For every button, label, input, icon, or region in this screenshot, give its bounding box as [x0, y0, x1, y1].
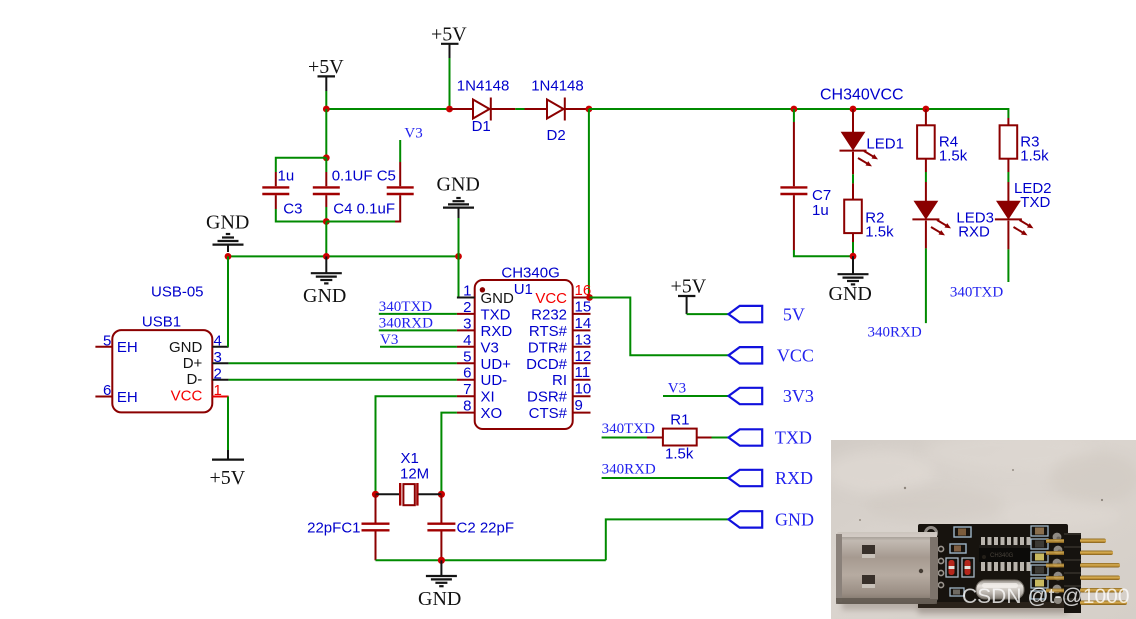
- red diodes: [946, 558, 958, 577]
- wire 340TXD to R1: [602, 437, 647, 439]
- svg-text:USB1: USB1: [142, 314, 181, 331]
- svg-text:V3: V3: [481, 339, 499, 356]
- junction GND rail mid: [323, 253, 330, 260]
- U1 pin 2 stub: [457, 313, 475, 315]
- U1 pin-1 marker dot: [480, 287, 485, 292]
- svg-text:7: 7: [463, 381, 471, 398]
- resistor R1 1.5k: [647, 429, 712, 446]
- svg-text:EH: EH: [117, 389, 138, 406]
- svg-text:6: 6: [463, 365, 471, 382]
- smd caps top-left: [954, 527, 971, 537]
- svg-text:1u: 1u: [278, 168, 295, 185]
- diode D2 1N4148: [525, 98, 589, 121]
- svg-text:V3: V3: [668, 381, 686, 397]
- svg-text:GND: GND: [829, 283, 872, 305]
- svg-text:13: 13: [575, 331, 592, 348]
- USB1 pin 5 stub: [95, 346, 112, 348]
- wire 340RXD to RXD flag: [602, 477, 729, 479]
- svg-text:GND: GND: [418, 588, 461, 610]
- svg-text:UD+: UD+: [481, 356, 512, 373]
- header blocks: [1064, 533, 1081, 613]
- LED LED2: [995, 202, 1034, 236]
- crystal: [976, 580, 1024, 599]
- svg-text:14: 14: [575, 315, 592, 332]
- svg-text:DTR#: DTR#: [528, 339, 568, 356]
- svg-text:1N4148: 1N4148: [457, 77, 510, 94]
- IC pins bottom: [981, 562, 1031, 571]
- U1 pin 3 stub: [457, 329, 475, 331]
- port flag VCC: [729, 347, 763, 363]
- svg-text:D+: D+: [183, 355, 203, 372]
- svg-text:GND: GND: [303, 285, 346, 307]
- svg-text:VCC: VCC: [171, 388, 203, 405]
- junction C4 bottom rail: [323, 218, 330, 225]
- U1 pin 14 stub: [573, 329, 591, 331]
- svg-text:1N4148: 1N4148: [531, 77, 584, 94]
- U1 pin 13 stub: [573, 346, 591, 348]
- wire GND rail down to U1 pin1: [458, 256, 460, 297]
- svg-text:EH: EH: [117, 339, 138, 356]
- wire elevated GND down to rail: [458, 218, 460, 256]
- svg-text:RI: RI: [552, 372, 567, 389]
- wire D+ to U1 UD+: [229, 362, 457, 364]
- solder blobs: [1053, 533, 1063, 604]
- wire D- to U1 UD-: [229, 379, 457, 381]
- IC body: [979, 545, 1031, 562]
- PCB mount rings: [926, 528, 937, 539]
- svg-text:RXD: RXD: [958, 224, 990, 241]
- capacitor C2 22pF: [427, 494, 455, 560]
- svg-text:CSDN @t-@1000: CSDN @t-@1000: [962, 585, 1130, 608]
- U1 pin 12 stub: [573, 362, 591, 364]
- wire top rail segment A: [326, 108, 449, 110]
- U1 pin 1 stub: [457, 297, 475, 299]
- LED LED1: [840, 109, 879, 166]
- svg-text:6: 6: [103, 382, 111, 399]
- svg-text:340RXD: 340RXD: [868, 325, 922, 341]
- svg-text:3: 3: [463, 315, 471, 332]
- wire V3 to U1 pin4: [380, 346, 457, 348]
- wire +5V stem top: [449, 58, 451, 109]
- svg-text:CH340G: CH340G: [990, 553, 1014, 559]
- junction C7 top: [791, 106, 798, 113]
- module shadow: [842, 596, 1072, 610]
- svg-text:VCC: VCC: [777, 346, 814, 366]
- wire bottom rail up to GND flag: [606, 519, 729, 560]
- junction GND rail right: [455, 253, 462, 260]
- svg-text:D-: D-: [186, 371, 202, 388]
- svg-text:R1: R1: [670, 412, 689, 429]
- resistor R3 1.5k: [1000, 118, 1018, 159]
- IC pins top: [981, 537, 1031, 546]
- svg-text:1.5k: 1.5k: [665, 446, 694, 463]
- crystal X1 12M: [376, 483, 442, 506]
- junction R4 top: [923, 106, 930, 113]
- smd bottom small: [950, 588, 964, 596]
- junction at D1 anode: [446, 106, 453, 113]
- svg-text:RTS#: RTS#: [529, 323, 568, 340]
- svg-text:340TXD: 340TXD: [379, 299, 432, 315]
- svg-text:UD-: UD-: [481, 372, 508, 389]
- svg-text:GND: GND: [775, 510, 814, 530]
- U1 pin 6 stub: [457, 379, 475, 381]
- svg-text:VCC: VCC: [535, 290, 567, 307]
- power +5V (below USB): [210, 450, 246, 489]
- svg-text:X1: X1: [401, 450, 419, 467]
- svg-text:4: 4: [463, 332, 471, 349]
- power +5V (at 5V flag): [671, 276, 707, 315]
- junction C3/C4 top: [323, 154, 330, 161]
- wire C3/C4 node down to GND rail: [325, 222, 327, 257]
- port flag GND: [729, 511, 763, 527]
- LED LED3: [912, 202, 951, 236]
- USB1 pin 4 stub (GND): [212, 346, 228, 348]
- U1 pin 7 stub: [457, 395, 475, 397]
- wire C4 top lead: [325, 158, 327, 172]
- svg-text:5V: 5V: [783, 304, 805, 324]
- svg-text:TXD: TXD: [1020, 194, 1050, 211]
- svg-text:+5V: +5V: [210, 467, 246, 489]
- svg-text:XO: XO: [481, 405, 503, 422]
- power +5V (net +5V, left): [308, 56, 344, 91]
- op IC U1 CH340G body: [475, 280, 573, 429]
- svg-text:GND: GND: [169, 339, 203, 356]
- port flag RXD: [729, 470, 763, 486]
- wire top rail segment B (to CH340VCC): [589, 108, 1009, 110]
- port flag TXD: [729, 429, 763, 445]
- svg-text:340TXD: 340TXD: [950, 285, 1003, 301]
- wire USB VCC down: [227, 397, 229, 451]
- svg-text:1.5k: 1.5k: [1020, 148, 1049, 165]
- svg-text:0.1UF C5: 0.1UF C5: [332, 168, 396, 185]
- svg-text:D2: D2: [547, 127, 566, 144]
- svg-text:CTS#: CTS#: [529, 405, 568, 422]
- photo inset: USB-TTL module photograph: [825, 432, 1136, 619]
- svg-text:15: 15: [575, 298, 592, 315]
- ground GND (bottom): [418, 560, 461, 610]
- wire V3 stub above C5: [399, 140, 401, 162]
- svg-text:5: 5: [103, 333, 111, 350]
- wire R2 to GND: [852, 233, 854, 256]
- ground GND (elevated, right of C5): [437, 174, 480, 219]
- wire USB GND pin up to rail: [227, 256, 229, 346]
- svg-text:TXD: TXD: [481, 306, 511, 323]
- svg-text:GND: GND: [481, 290, 515, 307]
- wire U1 XO to crystal right: [441, 413, 457, 495]
- svg-text:1: 1: [463, 283, 471, 300]
- capacitor C4 0.1uF: [313, 172, 340, 207]
- svg-text:RXD: RXD: [775, 468, 813, 488]
- wire R4 to LED3: [925, 159, 927, 202]
- ground GND (below rail, mid): [303, 256, 346, 307]
- U1 pin 4 stub: [457, 346, 475, 348]
- svg-text:+5V: +5V: [671, 276, 707, 298]
- wire GND rail (USB to U1 pin1 column): [228, 255, 459, 257]
- wire mid rail to C5 bottom: [326, 221, 395, 223]
- wire U1 pin1 horizontal (black): [458, 297, 475, 299]
- svg-text:22pFC1: 22pFC1: [307, 520, 360, 537]
- wire from rail down to U1 pin 16: [588, 109, 590, 298]
- junction top-left: [323, 106, 330, 113]
- svg-text:5: 5: [463, 348, 471, 365]
- U1 pin 16 stub: [573, 297, 591, 299]
- svg-text:1u: 1u: [812, 202, 829, 219]
- svg-text:DCD#: DCD#: [526, 356, 567, 373]
- wire between D1 and D2: [515, 108, 524, 110]
- svg-text:4: 4: [214, 333, 222, 350]
- svg-text:1.5k: 1.5k: [939, 148, 968, 165]
- U1 pin 15 stub: [573, 313, 591, 315]
- wire LED1 to R2: [852, 152, 854, 200]
- capacitor C3 1u: [262, 172, 289, 209]
- connector USB1 USB-05 body: [112, 330, 212, 412]
- wire C7 bottom to GND junction: [794, 250, 853, 256]
- svg-text:DSR#: DSR#: [527, 389, 568, 406]
- right smd column: [1031, 526, 1048, 536]
- svg-text:9: 9: [575, 397, 583, 414]
- PCB board: [918, 524, 1068, 608]
- svg-text:10: 10: [575, 381, 592, 398]
- junction R2 bottom / C7 / GND: [850, 253, 857, 260]
- U1 pin 11 stub: [573, 379, 591, 381]
- diode D1 1N4148: [450, 98, 516, 121]
- USB plug: [836, 532, 938, 604]
- svg-text:12M: 12M: [400, 466, 429, 483]
- svg-text:CH340VCC: CH340VCC: [820, 87, 904, 104]
- wire rail corner down to R3: [1007, 108, 1009, 118]
- svg-text:1: 1: [214, 382, 222, 399]
- svg-text:U1: U1: [514, 281, 533, 298]
- USB1 pin 1 stub (VCC): [212, 396, 228, 398]
- junction crystal right: [438, 491, 445, 498]
- junction after D2: [586, 106, 593, 113]
- svg-text:GND: GND: [437, 174, 480, 196]
- svg-text:USB-05: USB-05: [151, 284, 204, 301]
- junction U1 pin16: [586, 294, 593, 301]
- capacitor C7 1u: [780, 109, 807, 250]
- svg-text:1.5k: 1.5k: [865, 224, 894, 241]
- svg-text:V3: V3: [404, 126, 422, 142]
- svg-text:RXD: RXD: [481, 323, 513, 340]
- U1 pin 5 stub: [457, 362, 475, 364]
- resistor R2 1.5k: [844, 200, 862, 234]
- svg-text:C3: C3: [283, 201, 302, 218]
- capacitor C1 22pF: [362, 494, 390, 560]
- svg-text:+5V: +5V: [308, 56, 344, 78]
- wire C3 bottom to mid rail: [276, 209, 327, 222]
- U1 pin 10 stub: [573, 395, 591, 397]
- port flag 3V3: [729, 388, 763, 404]
- resistor R4 1.5k: [917, 109, 935, 159]
- wire U1 XI to crystal left: [376, 396, 457, 494]
- svg-text:XI: XI: [481, 389, 495, 406]
- svg-text:+5V: +5V: [431, 24, 467, 46]
- ground GND (under R2): [829, 256, 872, 305]
- USB1 pin 6 stub: [95, 396, 112, 398]
- svg-text:GND: GND: [206, 212, 249, 234]
- svg-text:R232: R232: [531, 306, 567, 323]
- wire 340RXD to U1 pin3: [379, 329, 457, 331]
- svg-text:2: 2: [214, 365, 222, 382]
- svg-text:CH340G: CH340G: [501, 265, 559, 282]
- svg-text:D1: D1: [472, 118, 491, 135]
- wire 340TXD to U1 pin2: [379, 313, 457, 315]
- svg-text:V3: V3: [380, 332, 398, 348]
- gold pins left of blocks: [1046, 539, 1064, 543]
- svg-text:340TXD: 340TXD: [602, 421, 655, 437]
- wire R3 to LED2: [1007, 159, 1009, 202]
- power +5V (net +5V, top): [431, 24, 467, 59]
- svg-text:2: 2: [463, 299, 471, 316]
- wire LED3 to 340RXD: [925, 221, 927, 324]
- svg-text:LED1: LED1: [866, 136, 904, 153]
- ground GND (above rail, left): [206, 212, 249, 253]
- USB1 pin 3 stub (D+): [212, 362, 228, 364]
- junction GND rail left: [225, 253, 232, 260]
- wire +5V to 5V flag: [687, 313, 729, 315]
- wire R1 to TXD flag: [712, 437, 729, 439]
- wire +5V column down to C3/C4 node: [325, 109, 327, 158]
- junction C2 bottom: [438, 557, 445, 564]
- gold pins: [1080, 539, 1106, 544]
- U1 pin 9 stub: [573, 412, 591, 414]
- through holes: [938, 546, 943, 551]
- junction LED1 top: [850, 106, 857, 113]
- junction crystal left: [372, 491, 379, 498]
- svg-text:12: 12: [575, 348, 592, 365]
- svg-text:340RXD: 340RXD: [379, 315, 433, 331]
- wire bottom GND rail: [376, 559, 606, 561]
- svg-text:340RXD: 340RXD: [602, 462, 656, 478]
- USB1 pin 2 stub (D-): [212, 379, 228, 381]
- wire pin16 to VCC flag: [590, 298, 729, 356]
- wire C4 bottom: [325, 207, 327, 222]
- svg-text:TXD: TXD: [775, 428, 812, 448]
- svg-text:3V3: 3V3: [783, 386, 814, 406]
- svg-text:11: 11: [575, 364, 591, 381]
- wire V3 to 3V3 flag: [663, 395, 729, 397]
- wire to C3 top: [276, 158, 327, 172]
- U1 pin 8 stub: [457, 412, 475, 414]
- svg-text:3: 3: [214, 349, 222, 366]
- svg-text:8: 8: [463, 398, 471, 415]
- wire LED2 to 340TXD: [1007, 221, 1009, 282]
- wire +5V stem left: [325, 91, 327, 109]
- port flag 5V: [729, 306, 763, 322]
- capacitor C5 0.1UF: [387, 162, 414, 222]
- svg-text:C2 22pF: C2 22pF: [457, 520, 515, 537]
- svg-text:C4 0.1uF: C4 0.1uF: [333, 201, 395, 218]
